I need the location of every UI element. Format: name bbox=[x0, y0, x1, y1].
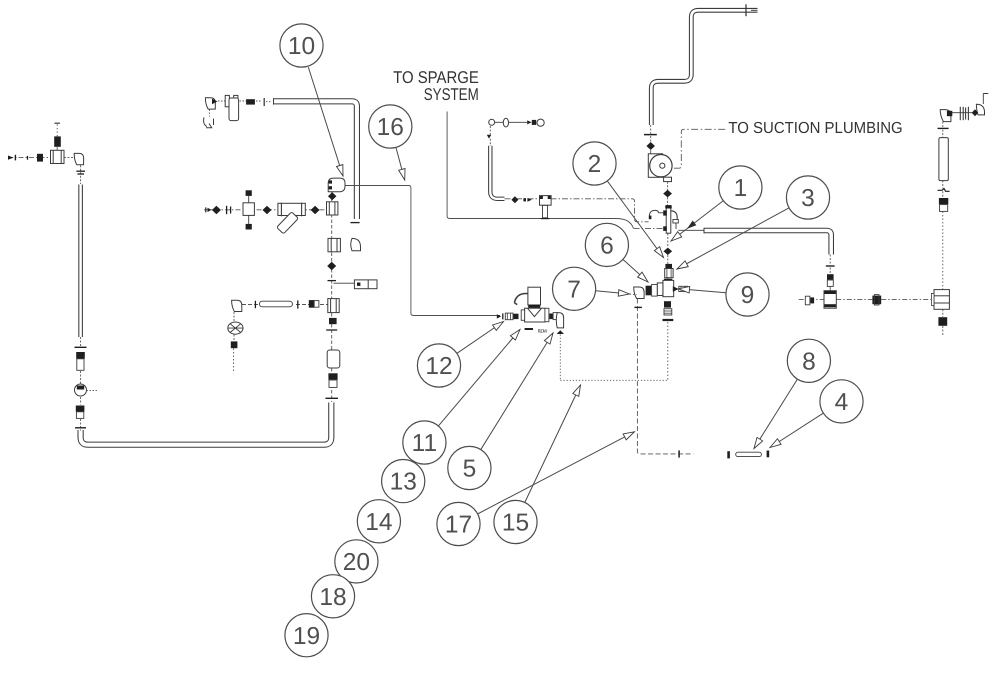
left pipe dash segments bbox=[80, 165, 82, 184]
left pipe tick lower bbox=[75, 427, 86, 429]
arrowhead 16 bbox=[399, 169, 408, 181]
column line below tee bbox=[331, 192, 333, 402]
svg-text:19: 19 bbox=[293, 623, 320, 650]
balloon 9 bbox=[726, 273, 769, 316]
flow valve bottom mark bbox=[525, 328, 533, 330]
tick on drop line bbox=[678, 450, 680, 457]
inline valve on sparge line bbox=[540, 196, 552, 206]
right horizontal dash-dot line bbox=[799, 298, 824, 300]
valve with lever bbox=[218, 100, 225, 102]
balloon 20 bbox=[335, 540, 378, 583]
leader line 3 bbox=[677, 208, 789, 269]
pipe item 3 (horizontal right) bbox=[704, 231, 831, 255]
middle dotted line fitting bbox=[231, 341, 238, 348]
flow valve assembly bbox=[514, 293, 528, 304]
diamond fitting above cross bbox=[664, 248, 673, 255]
arrowhead 10 bbox=[337, 165, 347, 177]
leader line 16 bbox=[396, 147, 405, 180]
leader line 2 bbox=[607, 181, 663, 258]
dark union fitting bbox=[37, 154, 43, 162]
svg-text:11: 11 bbox=[412, 430, 437, 457]
far right spool flanges bbox=[959, 107, 961, 120]
balloon 10 bbox=[280, 24, 323, 67]
right elbow of suction tube bbox=[671, 211, 677, 220]
leader line 5 bbox=[481, 333, 553, 450]
column union nut bbox=[328, 373, 337, 379]
leader line 9 bbox=[679, 289, 727, 293]
diamond below elbow bbox=[328, 192, 337, 200]
tick fitting bbox=[27, 156, 29, 160]
diamond fitting 1 bbox=[212, 206, 221, 215]
balloon 13 bbox=[382, 460, 425, 503]
leader line 8 bbox=[754, 379, 798, 449]
left horizontal dash-dot line bbox=[8, 157, 51, 159]
arrowhead 7 bbox=[618, 290, 630, 298]
balloon 11 bbox=[403, 421, 446, 464]
union square fitting bbox=[328, 238, 340, 251]
arrowhead 8 bbox=[751, 437, 762, 450]
svg-text:18: 18 bbox=[319, 584, 346, 611]
suction tube assembly bbox=[666, 206, 671, 234]
pump to cross dash bbox=[667, 182, 669, 190]
balloon 5 bbox=[448, 446, 491, 489]
svg-text:12: 12 bbox=[425, 353, 452, 380]
leader line 17 bbox=[478, 432, 635, 514]
svg-text:TO SUCTION PLUMBING: TO SUCTION PLUMBING bbox=[728, 120, 902, 137]
diamond far right bbox=[972, 109, 979, 116]
black cap below tee bbox=[329, 318, 337, 324]
tick before pipe 10 bbox=[256, 100, 262, 102]
balloon 16 bbox=[369, 105, 412, 148]
balloon 7 bbox=[553, 267, 596, 310]
svg-text:FLOW: FLOW bbox=[538, 329, 548, 334]
balloon 14 bbox=[357, 500, 400, 543]
cross stack dashes bbox=[667, 234, 669, 248]
arrowhead 9 bbox=[678, 286, 690, 293]
tick pair below elbow bbox=[76, 170, 85, 172]
left pipe fitting lower bbox=[76, 406, 85, 412]
far right horizontal line bbox=[946, 112, 978, 114]
cross fitting bbox=[664, 279, 672, 281]
leader line 11 bbox=[438, 330, 520, 427]
svg-text:6: 6 bbox=[600, 233, 614, 260]
small marks on sparge line bbox=[523, 198, 526, 201]
balloon 3 bbox=[786, 176, 829, 219]
leader line 12 bbox=[457, 322, 504, 354]
valve stem bbox=[543, 205, 548, 217]
bottom left long pipe bbox=[81, 403, 332, 445]
elbow left of cross bbox=[634, 287, 644, 299]
pipe to suction (top right) bbox=[651, 10, 757, 125]
svg-text:14: 14 bbox=[365, 509, 392, 536]
arrowhead 4 bbox=[768, 439, 781, 451]
svg-text:8: 8 bbox=[802, 348, 816, 375]
pipe end tick top right bbox=[745, 4, 747, 16]
tee fitting column top bbox=[327, 202, 338, 215]
svg-text:4: 4 bbox=[835, 389, 849, 416]
dash-dot sparge line y199 bbox=[505, 199, 649, 222]
svg-text:17: 17 bbox=[445, 512, 472, 539]
leader line 7 bbox=[596, 291, 630, 294]
diamond below pump bbox=[663, 190, 672, 198]
balloon 8 bbox=[787, 339, 830, 382]
y-strainer bbox=[278, 203, 305, 215]
column top elbow bbox=[328, 178, 345, 192]
leader line 1 bbox=[671, 201, 723, 241]
hook nozzle glyph bbox=[204, 117, 214, 127]
black triangle below ring bbox=[487, 135, 492, 139]
svg-text:10: 10 bbox=[288, 33, 315, 60]
diamond fitting 3 bbox=[311, 206, 320, 215]
top middle ring fitting bbox=[489, 119, 495, 125]
arrowhead 3 bbox=[675, 261, 688, 272]
valve fitting on riser bbox=[54, 136, 61, 146]
solid arrowhead 1 bbox=[685, 221, 696, 232]
svg-text:16: 16 bbox=[377, 114, 404, 141]
leader line 6 bbox=[623, 259, 648, 282]
svg-text:20: 20 bbox=[343, 549, 370, 576]
fittings below cross bbox=[664, 301, 671, 307]
fitting left end of dash-dot bbox=[8, 156, 14, 160]
pipe 3 end cap bbox=[703, 228, 705, 234]
leader line 15 bbox=[525, 385, 581, 503]
left pipe sample valve bbox=[75, 384, 87, 396]
svg-text:2: 2 bbox=[588, 151, 602, 178]
flow arrow below elbow bbox=[557, 330, 564, 334]
balloon 18 bbox=[311, 575, 354, 618]
fitting right on dash-dot bbox=[872, 296, 881, 305]
top middle chain line bbox=[495, 121, 504, 123]
tick above pump bbox=[644, 134, 657, 136]
sparge tube upper dash bbox=[489, 126, 491, 135]
left branch tick bbox=[297, 300, 299, 308]
arrowhead 6 bbox=[638, 272, 651, 284]
leader line 4 bbox=[770, 413, 823, 447]
svg-text:15: 15 bbox=[502, 510, 529, 537]
pump riser dashes bbox=[650, 125, 652, 134]
tick fittings mid bbox=[226, 206, 228, 214]
balloon 12 bbox=[417, 344, 460, 387]
right pipe lower dashes bbox=[829, 255, 831, 265]
elbow right of flow valve bbox=[556, 313, 563, 328]
pump assembly bbox=[648, 154, 662, 178]
left branch union nut bbox=[309, 300, 314, 308]
far right elbow top bbox=[976, 104, 984, 115]
relief valve bbox=[354, 280, 377, 289]
svg-text:SYSTEM: SYSTEM bbox=[424, 85, 479, 104]
left pipe tick bbox=[75, 346, 87, 348]
far right tick bbox=[938, 127, 949, 129]
dotted box around flow components bbox=[559, 335, 561, 381]
line y186 from elbow to flow valve bbox=[341, 186, 500, 316]
far right fittings stack bbox=[939, 198, 948, 204]
balloon 19 bbox=[285, 614, 328, 657]
svg-text:5: 5 bbox=[463, 456, 477, 483]
far right cylinder bbox=[939, 138, 948, 181]
gauge valve with stems bbox=[243, 203, 254, 216]
column tick bbox=[328, 280, 337, 282]
far right column dashes bbox=[942, 122, 944, 127]
mid assembly left marks bbox=[205, 207, 207, 212]
column tick 3 bbox=[326, 397, 339, 399]
balloon 17 bbox=[437, 502, 480, 545]
svg-text:1: 1 bbox=[734, 175, 748, 202]
to suction plumbing leader bbox=[672, 129, 725, 168]
arrowhead 5 bbox=[544, 331, 555, 344]
svg-text:7: 7 bbox=[567, 276, 581, 303]
tube tick below vertical tube bbox=[350, 222, 359, 224]
right tee fitting bbox=[934, 290, 949, 310]
tick below elbow bbox=[634, 306, 642, 308]
far right top stub bbox=[983, 94, 988, 105]
fitting below right tee bbox=[938, 317, 947, 326]
arrowhead 15 bbox=[573, 384, 584, 397]
middle assembly dash-dot line bbox=[204, 209, 327, 211]
left tee riser dotted line bbox=[56, 147, 58, 150]
drain items 8 and 4 bbox=[727, 451, 730, 458]
diamond on sparge dash line bbox=[511, 196, 518, 203]
sparge feed tube (middle) bbox=[490, 146, 504, 199]
diamond fitting column bbox=[327, 262, 336, 271]
svg-text:13: 13 bbox=[390, 469, 417, 496]
left branch elbow bbox=[232, 300, 242, 311]
balloon 6 bbox=[585, 223, 628, 266]
flower valve bbox=[228, 322, 243, 334]
left pipe union nut bbox=[76, 352, 85, 359]
svg-text:9: 9 bbox=[741, 282, 755, 309]
column capsule bbox=[327, 350, 340, 368]
far right elbow left bbox=[940, 110, 951, 122]
flow valve left port fittings bbox=[513, 314, 519, 319]
pipe 10 end marker bbox=[263, 98, 265, 106]
line elbow to pipe3 bbox=[678, 229, 703, 231]
right pipe tick bbox=[826, 265, 835, 267]
tee fitting column lower bbox=[328, 299, 339, 313]
top left elbow fitting bbox=[205, 98, 215, 109]
relief valve branch line bbox=[334, 282, 355, 284]
tee to elbow stub bbox=[64, 157, 75, 159]
far right tick 2 bbox=[938, 189, 950, 192]
balloon 2 bbox=[573, 142, 616, 185]
left branch tick 2 bbox=[254, 301, 256, 308]
nut fittings between elbow and cross bbox=[646, 286, 652, 296]
pipe item 10 (sparge hose) bbox=[274, 101, 357, 219]
arrowhead 2 bbox=[654, 247, 666, 260]
arrowhead 17 bbox=[623, 429, 636, 440]
flower valve dotted drop bbox=[233, 312, 235, 322]
fitting left of valve square bbox=[805, 296, 810, 305]
diamond above pump bbox=[646, 142, 655, 150]
diamond fitting 2 bbox=[263, 206, 272, 215]
elbow into union bbox=[351, 238, 361, 250]
right pipe valve square bbox=[824, 291, 836, 309]
left branch line from tee bbox=[296, 304, 328, 306]
arrowhead 11 bbox=[510, 327, 522, 340]
arrowhead 12 bbox=[493, 319, 506, 331]
left elbow fitting bbox=[74, 153, 83, 164]
flow valve right port fittings bbox=[549, 314, 553, 320]
left branch capsule bbox=[260, 301, 293, 307]
right pipe union nut bbox=[827, 274, 834, 279]
balloon 15 bbox=[494, 500, 537, 543]
dark fitting bbox=[240, 100, 247, 102]
to sparge system leader bbox=[447, 112, 633, 229]
elbow drop line below cross-left elbow bbox=[637, 299, 693, 454]
capsule fitting top middle bbox=[503, 118, 508, 127]
balloon 1 bbox=[719, 166, 762, 209]
ring fitting 2 bbox=[537, 119, 544, 126]
pipe 10 end cap bbox=[273, 98, 275, 104]
arrow fittings top middle bbox=[527, 120, 531, 124]
leader line 10 bbox=[308, 67, 343, 176]
column tick 2 bbox=[326, 329, 337, 331]
svg-text:3: 3 bbox=[801, 185, 815, 212]
tee fitting left bbox=[51, 150, 65, 163]
left elbow of suction tube bbox=[649, 210, 658, 216]
left vertical pipe bbox=[78, 185, 83, 338]
balloon 4 bbox=[820, 380, 863, 423]
coupler above cross bbox=[665, 264, 672, 269]
arrowhead 1 bbox=[669, 232, 682, 244]
